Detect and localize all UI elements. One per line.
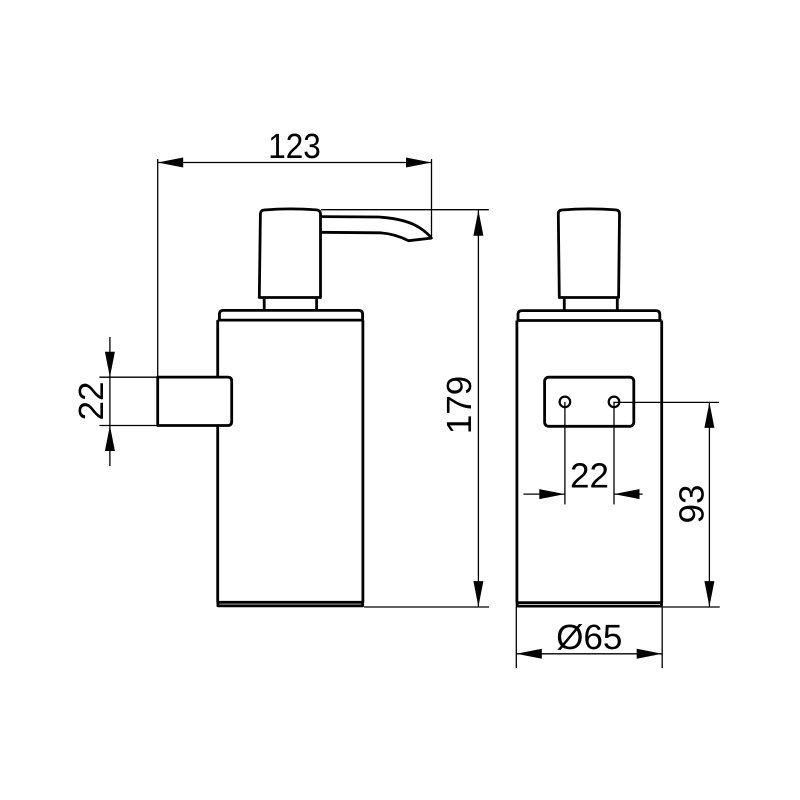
right view: screw hole left [560,397,571,408]
extension line: 123 left [157,159,159,377]
dimension 123 arrow right [406,158,432,168]
right view: base band [517,603,661,607]
dimension diameter 65 label [557,624,620,650]
right view: body outline [517,321,662,603]
right view: mounting plate [545,377,634,426]
dimension 65 arrow right [637,649,663,659]
dimension 123 line [158,162,432,164]
dimension 22 right arrow right [614,489,640,499]
dimension 179 arrow top [473,210,483,236]
extension line: 179 top [321,209,489,211]
left view: base band [218,602,363,606]
dimension 22 right line left part [524,493,565,495]
right view: pump neck [564,299,617,310]
left view: body top rim [219,310,362,320]
right view: screw hole right [609,397,620,408]
extension line: hole centre line right [614,401,719,403]
dimension 22 left line [109,337,111,466]
extension line: 179 bottom [364,606,489,608]
dimension 65 arrow left [516,649,542,659]
dimension 22 left arrow top [105,352,115,378]
dimension 93 arrow bottom [704,581,714,607]
dimension 179 arrow bottom [473,581,483,607]
extension line: 93 bottom [663,606,720,608]
dimension 22 left label [79,383,103,418]
dimension 22 left arrow bottom [105,426,115,452]
dimension 123 label [271,134,320,159]
extension line: 22 left bottom [99,425,157,427]
left view: pump spout [321,217,432,241]
extension line: hole centre line down right [613,402,615,505]
dimension 93 line [708,402,710,606]
extension line: 123 right [431,159,433,238]
dimension 179 line [477,210,479,606]
left view: wall bracket [158,377,232,425]
left view: body outline [218,320,363,602]
left view: pump neck [264,299,316,310]
dimension 179 label [447,377,472,431]
dimension 123 arrow left [158,158,184,168]
dimension 22 right arrow left [539,489,565,499]
dimension 22 right label [572,463,607,487]
dimension 65 line [516,653,662,655]
dimension 93 arrow top [704,402,714,428]
extension line: 65 right [661,607,663,668]
dimension 22 right line right part [614,493,643,495]
extension line: hole centre line down left [564,402,566,505]
left view: pump cap [259,209,320,298]
extension line: 65 left [515,607,517,668]
extension line: 22 left top [99,376,157,378]
right view: body top rim [518,311,660,321]
right view: pump cap [558,209,619,298]
dimension 93 label [679,486,704,522]
